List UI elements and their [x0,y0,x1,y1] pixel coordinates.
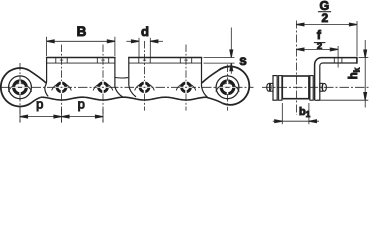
left end connector bottom [31,97,41,103]
svg-text:2: 2 [317,41,322,52]
cotter head [322,83,326,91]
svg-text:p: p [78,97,85,112]
inner plate left [279,76,282,101]
pin left end [270,83,273,91]
roller right end [216,76,239,99]
right end link big arc [218,66,249,104]
top contour left of attachment 1 [29,70,46,83]
attachment plate 1 right edge [115,58,123,98]
dimension d [126,38,163,57]
attachment plate 1 left edge [45,58,48,97]
bent attachment plate outer contour [315,58,357,101]
attachment plate 1 flange underside [47,62,115,64]
pin ring 3 [99,83,108,92]
pin ring 5 [182,83,191,92]
svg-text:2: 2 [322,11,329,25]
attachment 1 hole edges [56,58,109,64]
pin vertical centerlines [20,41,228,122]
inner link top edge between attachments [115,77,128,80]
bent attachment plate inner contour [320,63,357,100]
chain horizontal centerline [1,86,254,88]
dimension h_k [317,40,368,108]
flange hole edges [334,58,342,63]
centerline white crosses [19,79,21,95]
attachment 2 hole edges [139,58,192,64]
pin left rivet head [267,83,271,91]
dimension s [204,28,235,74]
left bushing ring [14,81,27,94]
dimension G/2 [296,21,357,57]
pin ring 2 [57,83,66,92]
right bushing ring [221,81,234,94]
right view vertical centerline [295,21,297,116]
roller end view [282,76,309,99]
inner plate right [310,76,313,101]
dimension B [47,37,115,56]
right end connector bottom [207,97,223,103]
svg-text:B: B [77,24,87,39]
pin ring 4 [140,83,149,92]
center dashes [18,86,230,88]
pin right end [320,83,323,91]
bent plate end cap [356,57,358,64]
inner plate contour arcs [8,83,239,91]
chain plates bottom contour [41,97,207,100]
attachment plate 1 flange top [46,57,116,59]
right view horizontal centerline [262,86,369,88]
dimension p p [20,109,103,123]
svg-text:p: p [36,97,43,112]
flange hole centerline [337,46,339,68]
attachment plate 2 flange underside [129,62,202,64]
attachment 2 hole center marks [143,59,188,61]
attachment plate 2 left edge [129,58,136,97]
attachment 1 hole center marks [60,59,105,61]
left end link big arc [1,68,31,106]
bent plate leg bottom [315,99,320,101]
dimension b1 [273,103,319,124]
svg-text:s: s [239,53,247,68]
dimension f/2 [296,48,338,50]
svg-text:d: d [141,24,149,39]
roller left end [9,76,32,99]
attachment plate 2 flange top [128,57,202,59]
attachment plate 2 right edge [202,58,208,98]
outer plate left [273,76,277,101]
top contour right of attachment 2 [202,70,219,83]
